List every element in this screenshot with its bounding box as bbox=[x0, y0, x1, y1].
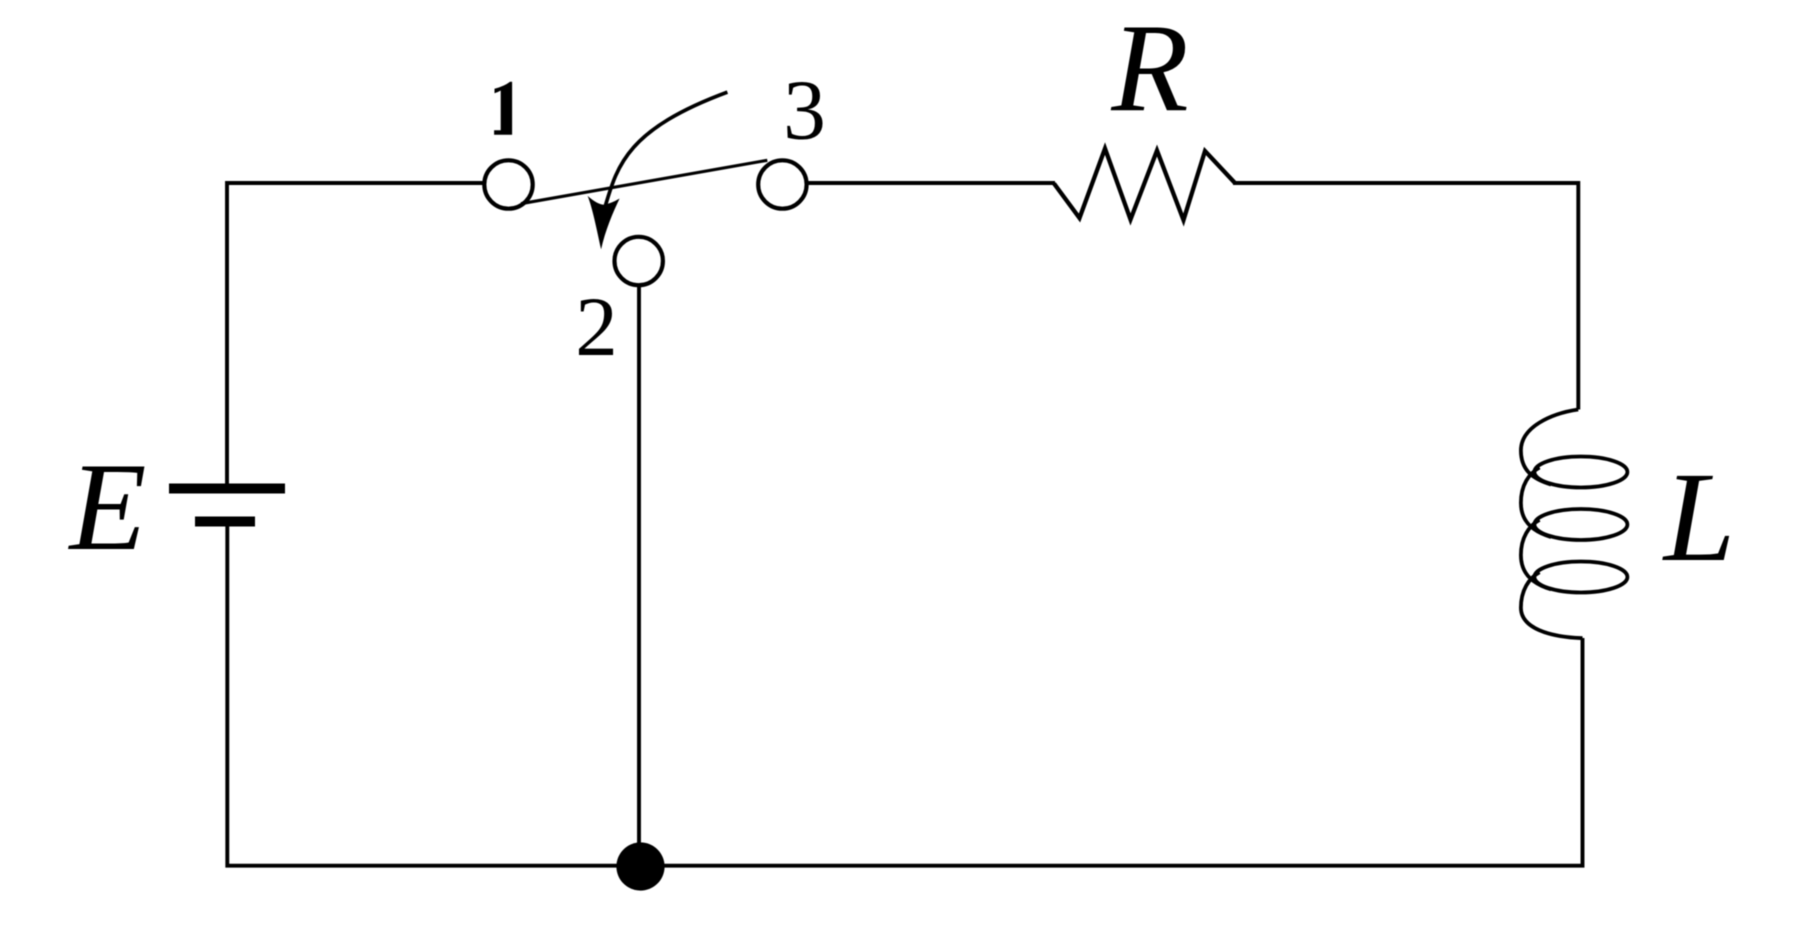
svg-text:3: 3 bbox=[783, 63, 826, 157]
svg-text:E: E bbox=[68, 438, 147, 577]
svg-text:L: L bbox=[1662, 445, 1735, 588]
svg-text:R: R bbox=[1110, 0, 1188, 139]
svg-text:2: 2 bbox=[575, 280, 618, 374]
